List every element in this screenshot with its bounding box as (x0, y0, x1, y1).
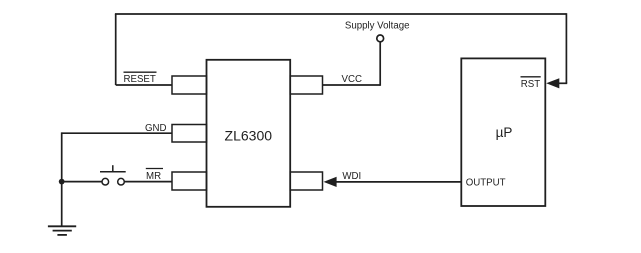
svg-text:RESET: RESET (124, 74, 156, 85)
svg-text:µP: µP (496, 125, 513, 140)
svg-text:GND: GND (145, 123, 167, 134)
ground symbol bar 3 (57, 234, 67, 236)
svg-text:VCC: VCC (342, 74, 362, 85)
label RST overline (521, 76, 541, 78)
wire: supply voltage vertical (379, 42, 381, 86)
ground symbol bar 1 (48, 225, 76, 227)
arrowhead into RST pin (546, 78, 559, 88)
switch SW1 contact right (118, 178, 125, 185)
wire: node to switch (62, 181, 102, 183)
wire: RESET horizontal to pin (116, 84, 173, 86)
svg-text:WDI: WDI (342, 171, 361, 182)
svg-text:MR: MR (146, 171, 161, 182)
pin RESET (left top) (172, 76, 207, 94)
arrowhead into WDI pin (324, 177, 337, 187)
svg-text:OUTPUT: OUTPUT (466, 178, 506, 189)
pin MR (left bottom) (172, 172, 207, 190)
switch SW1 actuator bar (100, 171, 126, 173)
svg-text:RST: RST (521, 79, 540, 90)
microprocessor U2 body (461, 58, 545, 206)
pin VCC (right top) (290, 76, 322, 94)
label MR overline (146, 168, 163, 170)
svg-text:Supply Voltage: Supply Voltage (345, 20, 410, 31)
IC U1 ZL6300 body (207, 60, 291, 207)
wire: right vertical down to RST (565, 13, 567, 83)
svg-text:ZL6300: ZL6300 (225, 128, 273, 144)
wire: ground vertical (61, 132, 63, 226)
wire: top horizontal feedback RESET to RST (115, 13, 567, 15)
terminal: supply voltage open circle (377, 35, 384, 42)
wire: OUTPUT to WDI (336, 181, 462, 183)
wire: switch to MR pin (124, 181, 172, 183)
switch SW1 actuator stem (112, 165, 114, 172)
wire: GND horizontal (62, 132, 173, 134)
label RESET overline (124, 71, 157, 73)
junction node dot (59, 179, 65, 185)
wire: VCC horizontal (323, 84, 381, 86)
switch SW1 contact left (102, 178, 109, 185)
ground symbol bar 2 (53, 230, 72, 232)
pin GND (left middle) (172, 125, 207, 143)
pin WDI (right bottom) (290, 172, 322, 190)
wire: stub into RST arrow (558, 82, 567, 84)
wire: left vertical from RESET node up (115, 14, 117, 85)
